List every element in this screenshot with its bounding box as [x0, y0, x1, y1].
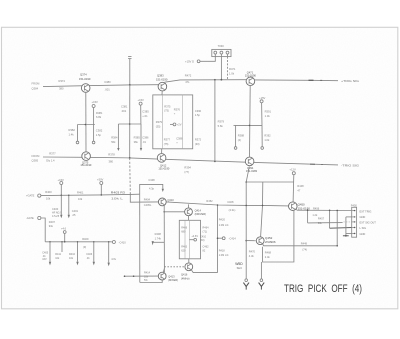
svg-text:R408: R408	[155, 232, 162, 236]
svg-text:(MIXER): (MIXER)	[168, 278, 178, 282]
svg-text:+15V D: +15V D	[185, 59, 194, 63]
svg-text:151-0190: 151-0190	[156, 77, 168, 81]
wire Q452 lower loop	[263, 211, 294, 262]
wire C408 left leg down	[139, 194, 141, 282]
svg-text:+15V: +15V	[92, 100, 99, 104]
capacitor C385	[140, 105, 142, 124]
svg-text:R452: R452	[206, 199, 213, 203]
svg-text:R466: R466	[181, 227, 188, 230]
svg-text:2.4k: 2.4k	[265, 255, 271, 259]
svg-text:+12V: +12V	[289, 168, 296, 172]
svg-text:C406: C406	[86, 253, 93, 256]
transistor Q471	[246, 77, 255, 86]
svg-text:R400: R400	[45, 190, 52, 194]
svg-text:(30): (30)	[195, 142, 200, 146]
wire Q413 collector stub	[163, 268, 164, 272]
capacitor C381 inline	[128, 56, 131, 58]
wire bus2 second signal line	[43, 157, 338, 165]
svg-text:R410: R410	[69, 253, 76, 256]
svg-text:R382: R382	[69, 128, 76, 132]
svg-text:C390: C390	[195, 109, 202, 113]
ground symbol left	[245, 279, 248, 282]
svg-text:Q414: Q414	[195, 208, 202, 212]
shield box B2	[179, 220, 200, 258]
svg-text:R385: R385	[134, 136, 141, 140]
resistor R473 vertical	[214, 80, 216, 162]
svg-text:R379: R379	[218, 119, 225, 123]
svg-text:R388: R388	[238, 134, 245, 138]
svg-text:-C410: -C410	[119, 241, 127, 245]
svg-text:C401: C401	[72, 209, 79, 213]
svg-text:Q410: Q410	[167, 198, 174, 202]
capacitor C406 stub	[93, 242, 95, 262]
svg-text:10k: 10k	[46, 197, 51, 201]
svg-text:+15V: +15V	[259, 96, 266, 100]
svg-text:5.6k: 5.6k	[218, 124, 224, 128]
svg-text:1.0M L/4: 1.0M L/4	[219, 254, 229, 257]
svg-text:+50V: +50V	[97, 177, 104, 181]
resistor R384	[117, 124, 119, 148]
wire Q416 emitter out	[191, 270, 217, 273]
transistor Q413	[158, 272, 166, 280]
svg-text:(75): (75)	[164, 109, 169, 113]
wire jumper y182	[246, 181, 294, 183]
svg-text:+2V: +2V	[177, 123, 182, 127]
svg-text:+.01: +.01	[142, 114, 148, 118]
wire Q383 emitter stub	[161, 91, 163, 95]
svg-text:C405L: C405L	[144, 203, 152, 207]
wire node C stub right-up	[234, 124, 236, 126]
svg-text:R448: R448	[297, 184, 304, 188]
svg-text:10k: 10k	[78, 197, 83, 201]
svg-text:R378: R378	[108, 152, 115, 156]
transistor Q416	[185, 263, 193, 271]
transistor Q374	[81, 84, 90, 93]
capacitor C405 stub	[49, 242, 51, 262]
svg-text:R420: R420	[219, 218, 226, 222]
svg-text:GND: GND	[360, 232, 366, 236]
svg-text:C400: C400	[52, 207, 59, 211]
svg-text:6.8k: 6.8k	[96, 115, 102, 119]
wire bus1 top signal line	[43, 85, 158, 87]
wire vertical mid section	[129, 85, 131, 158]
svg-text:1.0k: 1.0k	[264, 138, 270, 142]
wire node C horizontal	[236, 124, 262, 126]
transistor Q414	[185, 208, 193, 216]
wire Q414 collector stub	[188, 204, 190, 208]
svg-text:R392: R392	[264, 134, 271, 138]
wire vertical dashed lower	[129, 158, 132, 195]
resistor R382	[77, 125, 79, 142]
svg-text:R414: R414	[144, 272, 151, 275]
wire Q391 emitter chain	[246, 167, 249, 279]
svg-text:(4): (4)	[238, 138, 241, 142]
svg-text:FROM: FROM	[32, 82, 41, 86]
node junction bus1-chain A	[85, 85, 87, 87]
svg-text:GND: GND	[360, 215, 366, 219]
svg-text:-TRIG SIG: -TRIG SIG	[341, 163, 360, 167]
svg-text:47L: 47L	[185, 80, 190, 84]
ferrite bead on bus1	[309, 79, 314, 81]
svg-text:620: 620	[181, 250, 186, 253]
svg-text:R456: R456	[313, 206, 320, 210]
wire x262 drop	[261, 182, 263, 237]
wire riser x337	[336, 210, 338, 245]
svg-text:(30): (30)	[200, 239, 205, 242]
wire Q416 base dashed	[164, 266, 185, 268]
wire box B2 stem left	[184, 220, 186, 258]
resistor R381	[93, 108, 95, 125]
wire bus1 far segment	[254, 79, 338, 82]
svg-text:380: 380	[59, 87, 64, 91]
svg-text:C380: C380	[104, 80, 111, 84]
wire box B2 stem right	[188, 220, 190, 258]
svg-text:R377: R377	[49, 152, 56, 156]
svg-text:.001: .001	[121, 109, 127, 113]
svg-text:1.3k: 1.3k	[265, 114, 271, 118]
capacitor C401	[68, 195, 70, 215]
svg-text:R404: R404	[144, 197, 151, 201]
wire Q410 emitter chain	[163, 206, 165, 273]
connector P450 body	[352, 207, 357, 237]
svg-text:R372: R372	[195, 138, 202, 142]
wire node B horizontal	[118, 123, 141, 125]
wire Q452 base	[246, 240, 256, 242]
svg-text:C382: C382	[96, 128, 103, 132]
wire Q452 emitter line	[263, 244, 338, 246]
capacitor C386	[140, 124, 142, 148]
wire bus4 horizontal	[45, 241, 111, 243]
svg-text:Q413: Q413	[168, 274, 175, 278]
wire Q374 emitter to Q375 collector	[85, 92, 87, 152]
svg-text:C385: C385	[142, 109, 149, 113]
transistor Q391	[245, 157, 254, 166]
svg-text:4.6v: 4.6v	[111, 257, 117, 261]
svg-text:C386: C386	[142, 136, 149, 140]
wire Q410 collector bus	[166, 202, 288, 206]
transistor Q410	[158, 198, 166, 206]
svg-text:L SIG: L SIG	[360, 226, 367, 230]
svg-text:C381: C381	[121, 105, 128, 109]
svg-text:4.3k: 4.3k	[249, 254, 255, 258]
wire node A horizontal	[78, 124, 95, 126]
wire box B1 internal stem left	[161, 95, 163, 149]
svg-text:C388: C388	[176, 136, 183, 140]
svg-text:FROM: FROM	[32, 154, 41, 158]
svg-text:151-0190: 151-0190	[245, 74, 257, 78]
pin TP30-3	[226, 51, 229, 54]
svg-text:(71): (71)	[203, 231, 208, 234]
potentiometer R457 body	[308, 222, 343, 224]
wire bus3 lower main line	[41, 194, 140, 195]
svg-text:R418: R418	[219, 250, 226, 253]
svg-text:+15V: +15V	[138, 98, 145, 102]
svg-text:R409: R409	[82, 237, 89, 241]
svg-text:4.3p: 4.3p	[149, 186, 155, 190]
wire wiper dashed to pin3	[343, 221, 351, 223]
svg-text:R375: R375	[164, 104, 171, 108]
svg-text:2N3906: 2N3906	[265, 240, 276, 244]
svg-text:+4.6: +4.6	[61, 227, 67, 231]
svg-text:R463: R463	[181, 246, 188, 249]
node C410 terminal	[111, 241, 112, 243]
transistor Q450	[289, 202, 298, 211]
svg-text:1.5p: 1.5p	[195, 113, 201, 117]
resistor R392	[261, 125, 263, 146]
svg-text:R471: R471	[229, 67, 236, 71]
ferrite bead on bus2	[310, 163, 315, 165]
svg-text:R407: R407	[49, 220, 56, 224]
connector box TP30	[212, 49, 231, 56]
svg-text:151-0190: 151-0190	[158, 167, 170, 171]
svg-text:EXT TRIG: EXT TRIG	[360, 209, 372, 213]
wire pin2 stub	[346, 216, 352, 218]
svg-text:.001: .001	[105, 87, 111, 91]
svg-text:R379: R379	[156, 120, 163, 124]
svg-text:(DRIVER): (DRIVER)	[195, 212, 207, 216]
svg-text:R376: R376	[174, 108, 181, 112]
svg-text:(4MHz): (4MHz)	[181, 276, 190, 280]
resistor R448	[292, 175, 295, 202]
svg-text:Q374: Q374	[80, 72, 87, 76]
svg-text:.25: .25	[72, 213, 76, 217]
svg-text:16V: 16V	[42, 258, 47, 261]
wire bus1 right segment	[165, 80, 247, 83]
resistor R410 stub	[77, 242, 79, 262]
ground symbol right	[260, 262, 262, 279]
capacitor C408 feedback loop	[140, 184, 163, 194]
svg-text:+GATE: +GATE	[26, 193, 35, 197]
resistor R391	[261, 103, 263, 126]
svg-text:91k: 91k	[49, 224, 54, 228]
svg-text:10k L: 10k L	[111, 197, 124, 201]
wire gnd bus x345.9	[345, 217, 347, 236]
svg-text:Q416: Q416	[181, 273, 188, 277]
svg-text:R470: R470	[249, 250, 256, 254]
svg-text:.01: .01	[142, 140, 146, 144]
wire Q413 base line	[125, 275, 159, 277]
svg-text:R381: R381	[96, 111, 103, 115]
pin TP30-1	[214, 51, 217, 54]
svg-text:R472: R472	[185, 73, 192, 77]
transistor Q452	[256, 237, 264, 245]
wire TP30 mid pin down	[220, 57, 222, 80]
svg-text:1.0k: 1.0k	[229, 72, 235, 76]
wire Q450 emitter line	[296, 209, 352, 210]
svg-text:4.5-25: 4.5-25	[52, 215, 60, 218]
svg-text:+4.6V: +4.6V	[191, 235, 198, 238]
wire stub 4.6v	[108, 242, 110, 263]
pin TP30-2	[220, 51, 223, 54]
svg-text:(77): (77)	[184, 170, 189, 174]
wire Q416 collector stub	[188, 259, 190, 263]
svg-text:1.0M L/4: 1.0M L/4	[219, 224, 229, 227]
svg-text:Q384: Q384	[32, 86, 39, 90]
svg-text:1.4k: 1.4k	[69, 133, 75, 137]
resistor R471	[227, 57, 229, 80]
svg-text:1.2k: 1.2k	[312, 213, 318, 217]
wire box B1 to Q412	[161, 149, 163, 154]
svg-text:TRIG PICK OFF (4): TRIG PICK OFF (4)	[284, 283, 362, 295]
svg-text:R468: R468	[265, 251, 272, 255]
wire Q414 base link	[164, 211, 185, 213]
svg-text:R374: R374	[59, 79, 66, 83]
svg-text:151-0190: 151-0190	[80, 163, 92, 167]
svg-text:380: 380	[109, 160, 114, 164]
wire riser x217	[217, 205, 219, 273]
svg-text:(9): (9)	[83, 245, 86, 249]
wire emitter drop x329	[329, 210, 331, 228]
transistor Q412	[157, 154, 166, 163]
svg-text:C348: C348	[148, 178, 155, 182]
svg-text:-C414: -C414	[229, 236, 237, 240]
svg-text:(35): (35)	[156, 124, 161, 128]
wire Q471 emitter down	[249, 86, 252, 158]
svg-text:R377: R377	[164, 138, 171, 142]
svg-text:T030: T030	[218, 44, 225, 48]
svg-text:R403 R3: R403 R3	[111, 190, 125, 194]
svg-text:C410: C410	[200, 235, 207, 238]
capacitor C382	[93, 125, 95, 142]
svg-text:P450: P450	[351, 203, 358, 207]
wire pot wiper tick	[153, 241, 165, 243]
wire Q414 emitter stub	[188, 215, 190, 220]
svg-text:R401: R401	[77, 191, 84, 195]
wire C381 vertical	[129, 59, 131, 85]
resistor R388	[235, 125, 237, 146]
capacitor C400 HF ADJ	[60, 195, 62, 215]
svg-text:Q383: Q383	[157, 73, 164, 77]
svg-text:EXT SIG OUT: EXT SIG OUT	[360, 221, 377, 225]
svg-text:+TRIG SIG: +TRIG SIG	[341, 79, 360, 83]
svg-text:1.5p: 1.5p	[96, 133, 102, 137]
wire pin5 stub	[346, 233, 352, 235]
svg-text:680: 680	[181, 231, 186, 234]
transistor Q384a	[158, 82, 167, 91]
svg-text:1.74k: 1.74k	[155, 237, 162, 241]
svg-text:R394: R394	[184, 166, 191, 170]
transistor Q375	[82, 152, 91, 161]
svg-text:Dly 1.4: Dly 1.4	[46, 158, 55, 162]
svg-text:(74): (74)	[302, 248, 307, 252]
svg-text:(75): (75)	[164, 142, 169, 146]
wire dark link to pin4	[330, 227, 352, 230]
svg-text:151-0190: 151-0190	[79, 77, 91, 81]
wire box B1 internal stem right	[181, 95, 183, 149]
resistor R411 stub	[61, 242, 63, 252]
potentiometer R457 stub	[307, 210, 309, 223]
connector P450 pins	[352, 210, 355, 212]
node C414 terminal	[218, 237, 223, 239]
svg-text:56k: 56k	[111, 140, 116, 144]
svg-text:R449: R449	[301, 241, 308, 245]
shield box U380	[153, 95, 193, 149]
svg-text:36k: 36k	[134, 140, 139, 144]
svg-text:R457: R457	[318, 217, 325, 221]
wire bus3 drop to base	[130, 194, 158, 202]
svg-text:SH3: SH3	[237, 266, 243, 270]
svg-text:R411: R411	[55, 253, 61, 256]
wire Q413 emitter loop	[140, 280, 162, 283]
wire input2 to bus4	[41, 218, 45, 242]
svg-text:R391: R391	[265, 110, 272, 114]
svg-text:.01: .01	[86, 257, 90, 260]
svg-text:-GATE: -GATE	[26, 216, 34, 220]
svg-text:C462: C462	[203, 246, 210, 249]
svg-text:W5D: W5D	[235, 262, 243, 266]
svg-text:(4.3L): (4.3L)	[229, 208, 236, 212]
svg-text:R384: R384	[111, 136, 118, 140]
svg-text:Q385: Q385	[32, 159, 39, 163]
svg-text:R464: R464	[203, 227, 210, 230]
svg-text:C408: C408	[227, 200, 234, 204]
node test point in box	[173, 123, 176, 126]
